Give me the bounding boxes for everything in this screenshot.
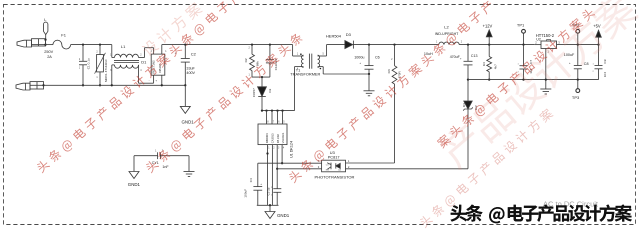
svg-text:CO: CO (326, 164, 330, 166)
ground GND1 (Y-cap return) (129, 172, 139, 179)
svg-text:F1: F1 (61, 33, 66, 38)
wire opto pin2 to D4 (346, 168, 469, 170)
svg-text:C13: C13 (471, 54, 478, 58)
svg-text:D3: D3 (346, 32, 352, 37)
svg-text:100uF: 100uF (244, 189, 248, 198)
wire bottom rail (44, 84, 186, 86)
svg-text:D1: D1 (141, 60, 147, 65)
wire opto pin1 to R3 (346, 162, 395, 164)
watermark faded stripe upper-left (140, 1, 203, 58)
svg-text:C2: C2 (191, 51, 197, 56)
capacitor C1 (82, 43, 84, 45)
svg-text:+: + (460, 56, 462, 60)
svg-text:GND1: GND1 (277, 213, 290, 218)
capacitor C12 (snubber) (269, 43, 271, 45)
svg-text:MOV1 471KD10: MOV1 471KD10 (104, 59, 108, 82)
svg-text:GND1: GND1 (128, 182, 141, 187)
earth ground (below U2) (540, 88, 551, 90)
svg-text:TP1: TP1 (517, 22, 525, 27)
svg-text:CA3013: CA3013 (270, 133, 274, 143)
svg-text:R2: R2 (244, 58, 248, 62)
svg-text:1nF: 1nF (162, 165, 169, 169)
svg-text:104: 104 (603, 72, 607, 77)
svg-text:L2: L2 (444, 25, 449, 30)
AC plug P1 (line input) (17, 40, 32, 47)
IC U1 DK124 (258, 124, 287, 145)
capacitor C6 (368, 43, 370, 45)
svg-text:4k7: 4k7 (494, 64, 498, 69)
capacitor C7 (523, 45, 525, 66)
svg-text:VCC0C1: VCC0C1 (281, 132, 285, 143)
svg-text:C9: C9 (603, 59, 607, 63)
svg-text:+: + (260, 182, 262, 186)
svg-text:1000u: 1000u (354, 55, 364, 59)
svg-text:R3: R3 (387, 69, 391, 73)
test point TP2 (576, 29, 580, 33)
svg-text:C8: C8 (584, 62, 589, 66)
fuse F1 (53, 40, 71, 49)
watermark red stripe 2 (144, 31, 304, 174)
watermark red stripe 1 (35, 0, 255, 174)
capacitor C9 (598, 45, 600, 66)
svg-text:TRANSFORMER: TRANSFORMER (290, 71, 320, 76)
wire secondary ground rail (468, 79, 599, 81)
wire U1 pin2 to ground (271, 145, 273, 206)
watermark red stripe 5 (436, 7, 597, 150)
svg-text:33uF: 33uF (186, 66, 195, 70)
svg-text:+: + (359, 61, 361, 65)
svg-text:D8D004: D8D004 (265, 133, 269, 143)
svg-text:2A: 2A (47, 55, 52, 59)
svg-text:GND1: GND1 (182, 119, 195, 124)
wire snubber bottom (252, 76, 270, 78)
wire U1 pin1 to ground (267, 145, 269, 206)
svg-text:C6: C6 (375, 55, 380, 59)
resistor R4 (488, 45, 490, 57)
svg-text:+: + (569, 61, 571, 65)
test point TP1 (522, 29, 526, 33)
optocoupler U3 PC817 (322, 160, 346, 172)
power +5V (597, 43, 599, 45)
wire secondary rail (353, 44, 438, 46)
varistor MOV1 (99, 43, 101, 45)
capacitor C13 (467, 43, 469, 45)
capacitor CY1 (134, 155, 158, 157)
transformer T1 (292, 45, 294, 56)
svg-text:D4: D4 (462, 103, 466, 107)
capacitor C8 (577, 45, 579, 66)
svg-text:FB C02: FB C02 (276, 134, 280, 144)
svg-text:U1 DK124: U1 DK124 (289, 141, 293, 158)
wire / junction at plug P1 (44, 39, 46, 41)
diode D2 FR157 (clamp) (261, 77, 263, 87)
svg-text:C4: C4 (249, 178, 253, 182)
ground GND1 (below U1) (269, 205, 271, 211)
diode D3 HER504 (345, 41, 353, 49)
earth ground (secondary, below C6) (368, 74, 370, 91)
svg-text:EM: EM (326, 169, 329, 171)
wire T1 secondary top riser (327, 44, 345, 46)
test point TP3 (577, 80, 579, 89)
svg-text:400V: 400V (186, 71, 195, 75)
svg-text:U2: U2 (536, 38, 541, 42)
svg-text:TP3: TP3 (572, 95, 580, 100)
svg-text:C1 0.1u: C1 0.1u (87, 58, 91, 69)
AC plug P2 (neutral input) (16, 83, 30, 90)
svg-text:-: - (149, 79, 150, 83)
svg-text:470uF: 470uF (450, 55, 461, 59)
svg-text:10uH: 10uH (424, 52, 433, 56)
wire drain node (262, 110, 295, 112)
svg-text:PHOTOTRANSISTOR: PHOTOTRANSISTOR (315, 174, 355, 179)
svg-text:250V: 250V (44, 50, 53, 54)
svg-text:+12V: +12V (483, 23, 493, 28)
wire U1 ground bus (257, 204, 279, 206)
svg-text:HER504: HER504 (326, 33, 342, 38)
svg-text:RECT1N2: RECT1N2 (152, 60, 156, 74)
watermark red stripe 4 (418, 107, 555, 229)
wire rail after L2 (459, 44, 534, 46)
ground GND1 (primary, below C2) (184, 85, 186, 106)
resistor R2 (snubber) (251, 43, 253, 45)
resistor R3 (393, 43, 395, 45)
capacitor C4 (257, 163, 259, 186)
svg-text:C5 1u: C5 1u (267, 187, 271, 195)
capacitor C2 (184, 43, 186, 45)
svg-text:L1: L1 (121, 44, 126, 49)
wire U1 VCC pin to opto (281, 145, 283, 164)
svg-text:AN: AN (338, 163, 341, 166)
watermark big faint diagonal text (436, 0, 640, 171)
power +12V (488, 43, 490, 45)
svg-text:PC817: PC817 (328, 154, 340, 159)
svg-text:68k: 68k (256, 61, 260, 66)
svg-text:FR157: FR157 (252, 88, 256, 97)
svg-text:IND-UPRIGHT: IND-UPRIGHT (435, 32, 459, 36)
wire fuse to C1/MOV (71, 44, 112, 46)
headline 头条@电子产品设计方案 (black with white outline) (450, 204, 632, 223)
svg-text:D2: D2 (268, 88, 272, 92)
wire plug to fuse (46, 44, 54, 46)
svg-text:+: + (155, 79, 157, 83)
capacitor C5 (273, 188, 281, 190)
wire bridge output rail (162, 44, 293, 46)
wire U1 FB pin to opto (276, 145, 278, 169)
earth ground (Y-cap) (188, 156, 190, 172)
svg-text:R4: R4 (482, 62, 486, 66)
bridge rectifier D1 (151, 54, 165, 75)
svg-text:+5V: +5V (593, 24, 601, 29)
zener diode D4 11V (467, 80, 469, 101)
watermark red stripe 3 (287, 0, 495, 184)
